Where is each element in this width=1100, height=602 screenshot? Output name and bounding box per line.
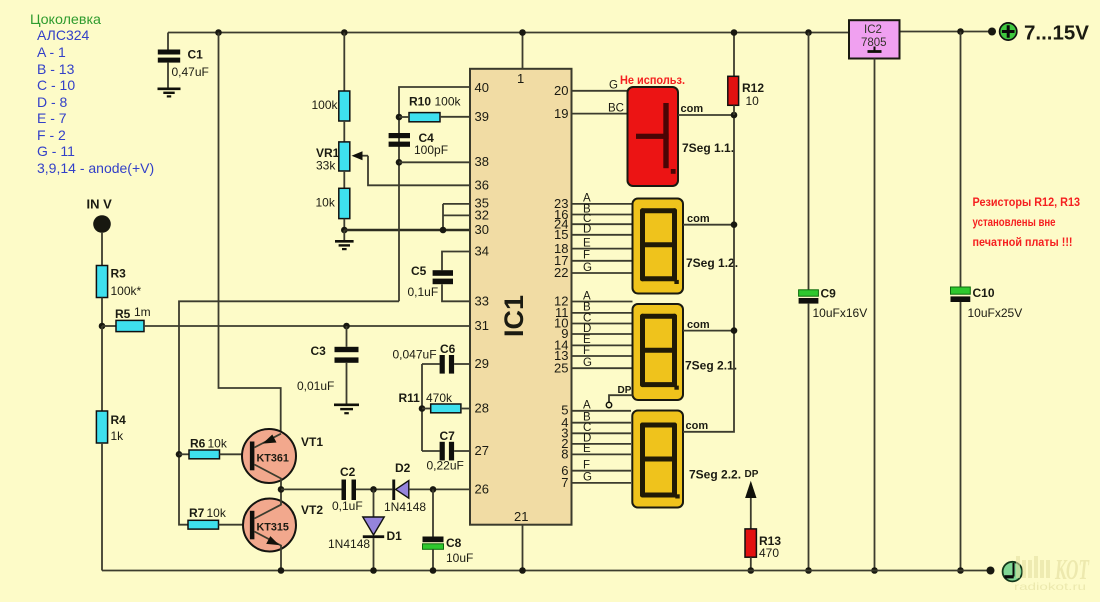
svg-text:com: com <box>687 319 710 331</box>
svg-text:R11: R11 <box>399 391 421 405</box>
wire: 7Seg1.1 com to R12 column <box>678 114 734 116</box>
wire: R3 to junction <box>101 298 103 327</box>
svg-text:0,22uF: 0,22uF <box>427 459 464 473</box>
wire: VR1 to 10k <box>343 171 345 188</box>
wire: +V feed down to VT1 emitter <box>219 33 281 432</box>
wire: segment G to 7Seg 2.2 <box>572 482 632 484</box>
svg-text:1k: 1k <box>111 429 125 443</box>
node: C10 junction on +raw rail <box>957 28 964 35</box>
wire: top +V rail (left section) <box>168 32 852 34</box>
svg-text:7: 7 <box>561 475 568 490</box>
wire: 7Seg2.2 com up to common column <box>683 115 734 432</box>
resistor 100k (top of divider) <box>339 91 350 121</box>
wire: R7 to VT2 base <box>219 524 251 526</box>
wire: C6/R11/C7 feedback tie column <box>421 364 423 451</box>
node: pin1 rail junction <box>519 29 526 36</box>
svg-text:7Seg 1.1.: 7Seg 1.1. <box>682 141 734 155</box>
svg-text:F - 2: F - 2 <box>37 127 66 143</box>
svg-text:com: com <box>681 103 704 115</box>
IC U2: IC2 7805 regulator <box>849 20 900 58</box>
wire: R4 down to bottom rail <box>101 443 103 571</box>
wire: segment E to 7Seg 2.1 <box>572 344 633 346</box>
svg-text:22: 22 <box>554 265 568 280</box>
svg-text:10uF: 10uF <box>446 551 473 565</box>
svg-text:1m: 1m <box>134 305 151 319</box>
wire: segment F to 7Seg 2.2 <box>572 470 632 472</box>
wire: rail to 100k <box>343 33 345 92</box>
capacitor C7 0,22uF <box>422 450 440 452</box>
capacitor C3 0,01uF <box>346 326 348 347</box>
svg-text:1: 1 <box>517 71 524 86</box>
diode D1 1N4148 (to ground) <box>373 489 375 517</box>
svg-text:8: 8 <box>561 447 568 462</box>
wire: segment C to 7Seg 2.2 <box>572 432 632 434</box>
wire: segment F to 7Seg 1.2 <box>572 260 633 262</box>
wire: base feed from oscillator column to R6/R7 <box>179 301 399 524</box>
capacitor C8 10uF (polarized) <box>432 489 434 536</box>
wire: segment E to 7Seg 1.2 <box>572 248 633 250</box>
wire: segment D to 7Seg 2.2 <box>572 443 632 445</box>
svg-text:27: 27 <box>475 443 489 458</box>
wire: IC1 pin 40 to oscillator column <box>399 87 470 301</box>
ground (C1) <box>158 88 181 91</box>
svg-text:VT1: VT1 <box>301 435 323 449</box>
svg-text:7Seg 2.2.: 7Seg 2.2. <box>689 468 741 482</box>
svg-text:7Seg 1.2.: 7Seg 1.2. <box>686 256 738 270</box>
svg-text:26: 26 <box>475 482 489 497</box>
svg-text:com: com <box>687 213 710 225</box>
resistor R7 10k <box>188 520 219 529</box>
capacitor C10 10uFx25V <box>960 32 962 288</box>
svg-text:C9: C9 <box>821 287 837 301</box>
svg-text:470: 470 <box>759 546 779 560</box>
wire: segment D to 7Seg 2.1 <box>572 333 633 335</box>
ground (divider) <box>335 240 354 243</box>
node: rail junction to VT1 emitter feed <box>215 29 222 36</box>
node: com junctions <box>731 112 738 119</box>
wire: segment C to 7Seg 1.2 <box>572 223 633 225</box>
svg-text:25: 25 <box>554 360 568 375</box>
wire: junction to ground <box>343 230 345 241</box>
svg-text:33: 33 <box>475 294 489 309</box>
svg-text:radiokot.ru: radiokot.ru <box>1014 581 1086 593</box>
svg-text:E: E <box>583 237 591 249</box>
svg-text:29: 29 <box>475 356 489 371</box>
capacitor C6 0,047uF <box>422 363 440 365</box>
svg-text:A - 1: A - 1 <box>37 44 66 60</box>
wire: IC2 ground to bottom rail <box>874 59 876 571</box>
svg-text:F: F <box>583 345 590 357</box>
svg-text:33k: 33k <box>316 159 336 173</box>
wire: junction to R4 <box>101 326 103 411</box>
svg-text:установлены вне: установлены вне <box>973 215 1056 229</box>
svg-text:C - 10: C - 10 <box>37 77 75 93</box>
svg-text:R3: R3 <box>111 267 127 281</box>
wire: segment C to 7Seg 2.1 <box>572 323 633 325</box>
wire: R5 to IC1 pin 31 <box>144 325 470 327</box>
svg-text:0,047uF: 0,047uF <box>393 348 437 362</box>
svg-text:40: 40 <box>475 80 489 95</box>
wire: segment G to 7Seg 2.1 <box>572 367 633 369</box>
svg-text:C10: C10 <box>973 286 995 300</box>
svg-text:DP: DP <box>745 469 759 480</box>
svg-text:19: 19 <box>554 106 568 121</box>
svg-text:7...15V: 7...15V <box>1024 22 1089 45</box>
capacitor C5 0,1uF <box>442 252 470 271</box>
resistor 10k (bottom of divider) <box>339 188 350 218</box>
wire: IC1 pin 19 to 7Seg1.1 (BC) <box>572 113 628 115</box>
svg-text:BC: BC <box>608 103 624 115</box>
svg-text:10k: 10k <box>207 506 227 520</box>
svg-text:E - 7: E - 7 <box>37 110 67 126</box>
svg-text:R4: R4 <box>111 413 127 427</box>
wire: R6 to VT1 base <box>220 453 251 455</box>
wire: R10 left stub <box>399 116 409 118</box>
wire: IN V to R3 <box>101 232 103 266</box>
transistor VT2 KT315 <box>243 499 296 552</box>
svg-text:10k: 10k <box>208 437 228 451</box>
resistor R12 10 (common anode feed) <box>733 33 735 77</box>
display 7Seg 1.1 (red, not used) <box>628 87 679 186</box>
svg-text:C7: C7 <box>440 429 456 443</box>
transistor VT1 KT361 <box>242 429 296 483</box>
wire: divider output bus to IC1 pin 30 <box>344 229 470 231</box>
node: bottom rail junctions <box>278 567 285 574</box>
node: R10 left junction <box>396 114 403 121</box>
svg-text:36: 36 <box>475 178 489 193</box>
svg-text:21: 21 <box>514 509 528 524</box>
wire: pin 1 to +V rail <box>522 33 524 69</box>
svg-text:Резисторы R12, R13: Резисторы R12, R13 <box>973 195 1081 209</box>
svg-text:E: E <box>583 443 591 455</box>
terminal: - output <box>1003 562 1023 582</box>
node: C2/D1/D2 junction <box>370 486 377 493</box>
svg-text:G: G <box>609 80 618 92</box>
svg-text:30: 30 <box>475 222 489 237</box>
wire: C4 junction to IC1 pin 38 <box>399 161 470 163</box>
svg-text:D2: D2 <box>395 461 411 475</box>
wire: VR1 wiper to IC1 pin 36 <box>368 156 470 186</box>
diode D2 1N4148 (series) <box>392 480 395 501</box>
node: C4 bottom junction <box>396 159 403 166</box>
svg-text:R5: R5 <box>115 307 131 321</box>
svg-text:0,1uF: 0,1uF <box>332 499 363 513</box>
svg-text:G: G <box>583 357 592 369</box>
wire: common output to C2 <box>281 488 342 490</box>
svg-text:C1: C1 <box>188 48 204 62</box>
svg-text:D - 8: D - 8 <box>37 94 68 110</box>
svg-text:C6: C6 <box>440 342 456 356</box>
svg-text:20: 20 <box>554 83 568 98</box>
svg-text:B - 13: B - 13 <box>37 61 75 77</box>
svg-text:D: D <box>583 323 591 335</box>
wire: 10k to junction <box>343 219 345 230</box>
svg-text:Не использ.: Не использ. <box>620 73 685 87</box>
svg-text:G: G <box>583 472 592 484</box>
svg-text:100k: 100k <box>312 98 339 112</box>
svg-text:0,01uF: 0,01uF <box>297 379 334 393</box>
node: R3/R4/R5 junction <box>99 323 106 330</box>
svg-text:7Seg 2.1.: 7Seg 2.1. <box>685 359 737 373</box>
resistor R6 10k <box>189 450 220 459</box>
svg-text:D1: D1 <box>387 529 403 543</box>
svg-text:АЛС324: АЛС324 <box>37 27 90 43</box>
wire: segment G to 7Seg 1.2 <box>572 272 633 274</box>
svg-text:A: A <box>583 400 591 412</box>
svg-text:100k*: 100k* <box>111 284 142 298</box>
wire: 7Seg1.2 com <box>683 224 734 226</box>
wire: R10 right to IC1 pin 39 <box>440 116 470 118</box>
svg-text:C2: C2 <box>340 465 356 479</box>
wire: top +V rail (right section to + terminal) <box>897 31 992 33</box>
wire: segment E to 7Seg 2.2 <box>572 453 632 455</box>
svg-text:KT315: KT315 <box>257 522 289 534</box>
wire: segment B to 7Seg 1.2 <box>572 214 633 216</box>
wire: segment A to 7Seg 2.1 <box>572 301 633 303</box>
svg-text:39: 39 <box>475 109 489 124</box>
svg-text:10uFx25V: 10uFx25V <box>968 306 1023 320</box>
svg-text:R12: R12 <box>742 81 764 95</box>
svg-text:C5: C5 <box>411 264 427 278</box>
svg-text:печатной платы !!!: печатной платы !!! <box>973 235 1073 249</box>
svg-text:KT361: KT361 <box>257 453 289 465</box>
display 7Seg 2.1 (yellow) <box>633 304 684 400</box>
wire: segment B to 7Seg 2.1 <box>572 312 633 314</box>
svg-text:1N4148: 1N4148 <box>328 537 370 551</box>
svg-text:Цоколевка: Цоколевка <box>30 11 101 27</box>
capacitor C1 <box>167 33 169 50</box>
svg-text:A: A <box>583 290 591 302</box>
svg-text:100k: 100k <box>435 95 462 109</box>
wire: junction stub to R5 <box>102 325 116 327</box>
svg-text:F: F <box>583 250 590 262</box>
node: pins 35/32/30 tie junction <box>440 227 447 234</box>
wire: D2 to IC1 pin 26 <box>409 488 470 490</box>
wire: IC1 pin 20 to 7Seg1.1 (G) <box>572 90 628 92</box>
resistor R5 1m <box>116 320 144 331</box>
svg-text:10uFx16V: 10uFx16V <box>813 306 868 320</box>
potentiometer VR1 33k <box>339 142 350 171</box>
svg-text:32: 32 <box>475 208 489 223</box>
resistor R3 100k* <box>96 266 107 298</box>
svg-text:IC1: IC1 <box>499 295 529 337</box>
svg-text:10: 10 <box>746 94 760 108</box>
svg-text:IN V: IN V <box>87 197 113 212</box>
capacitor C4 100pF <box>389 133 410 138</box>
svg-text:0,47uF: 0,47uF <box>172 65 209 79</box>
node: C3 junction on pin31 line <box>343 323 350 330</box>
wire: stub to R6 <box>179 453 189 455</box>
svg-text:100pF: 100pF <box>414 143 448 157</box>
resistor R11 470k <box>422 408 431 410</box>
wire: segment D to 7Seg 1.2 <box>572 234 633 236</box>
svg-text:470k: 470k <box>426 391 453 405</box>
svg-text:28: 28 <box>475 401 489 416</box>
svg-text:10k: 10k <box>316 196 336 210</box>
svg-text:31: 31 <box>475 318 489 333</box>
node: divider output junction <box>341 227 348 234</box>
svg-text:0,1uF: 0,1uF <box>408 285 439 299</box>
svg-text:R6: R6 <box>190 437 206 451</box>
wire: segment B to 7Seg 2.2 <box>572 422 632 424</box>
wire: pin 21 to bottom rail <box>522 525 524 571</box>
svg-text:C8: C8 <box>446 536 462 550</box>
node: R11 junction <box>419 405 426 412</box>
wire: segment A to 7Seg 2.2 <box>572 410 632 412</box>
svg-text:G: G <box>583 262 592 274</box>
svg-text:3,9,14 - anode(+V): 3,9,14 - anode(+V) <box>37 160 154 176</box>
node: VT1/VT2 common output <box>278 486 285 493</box>
wire: IC1 pins 35/32 tie vertical <box>443 204 470 230</box>
VR1 wiper arrow <box>360 155 368 157</box>
svg-text:G - 11: G - 11 <box>37 143 75 159</box>
svg-text:IC2: IC2 <box>864 24 882 36</box>
node: C8 junction <box>430 486 437 493</box>
IC U1: IC1 body <box>470 69 572 525</box>
display 7Seg 1.2 (yellow) <box>633 199 684 294</box>
svg-text:com: com <box>686 420 709 432</box>
svg-text:C3: C3 <box>311 344 327 358</box>
terminal: +7...15V input <box>1000 23 1017 40</box>
ground (C3) <box>334 403 359 406</box>
svg-text:R7: R7 <box>189 506 205 520</box>
node: + terminal end dot <box>988 28 996 36</box>
node: rail junction divider chain <box>341 29 348 36</box>
svg-text:1N4148: 1N4148 <box>384 500 426 514</box>
watermark radiokot <box>1014 555 1090 593</box>
wire: 100k to VR1 <box>343 121 345 142</box>
wire: C2 to D-junction <box>356 488 392 490</box>
svg-text:15: 15 <box>554 227 568 242</box>
svg-text:R10: R10 <box>409 95 431 109</box>
resistor R10 100k <box>409 113 440 122</box>
svg-text:VT2: VT2 <box>301 503 323 517</box>
node: R6 left junction <box>176 451 183 458</box>
svg-text:D: D <box>583 224 591 236</box>
capacitor C2 0,1uF <box>342 480 347 501</box>
wire: segment A to 7Seg 1.2 <box>572 203 633 205</box>
wire: segment F to 7Seg 2.1 <box>572 355 633 357</box>
display 7Seg 2.2 (yellow) <box>632 411 683 508</box>
svg-text:38: 38 <box>475 154 489 169</box>
svg-text:34: 34 <box>475 244 489 259</box>
resistor R13 470 <box>745 529 756 557</box>
wire: 7Seg2.1 com <box>683 330 734 332</box>
resistor R4 1k <box>96 411 107 443</box>
capacitor C9 10uFx16V <box>805 29 812 36</box>
wire: bottom ground rail <box>102 570 991 572</box>
svg-text:F: F <box>583 460 590 472</box>
